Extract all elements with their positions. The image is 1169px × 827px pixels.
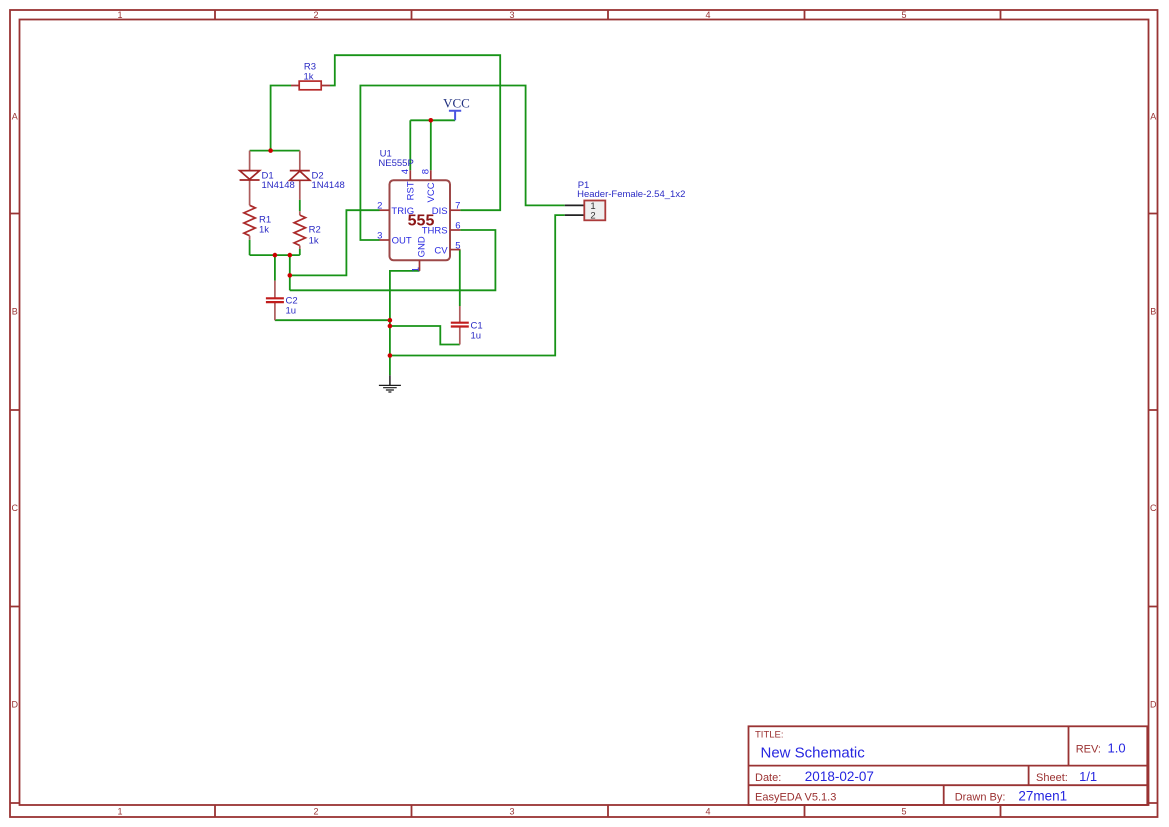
junction R3/D rail xyxy=(268,148,273,153)
frame column ticks bottom xyxy=(215,805,1001,817)
frame row ticks left xyxy=(10,214,20,804)
svg-text:5: 5 xyxy=(455,241,460,252)
diode D2 xyxy=(290,151,345,200)
wire THRS pin6 xyxy=(290,230,496,290)
diode D1 xyxy=(240,151,295,206)
frame column ticks top xyxy=(215,10,1001,20)
wire R3 right to DIS pin7 xyxy=(330,55,500,210)
wire C2 bottom to gnd stem xyxy=(275,319,390,321)
svg-text:4: 4 xyxy=(400,169,411,174)
title block DrawnBy divider xyxy=(943,785,945,805)
U1 pin 7 DIS xyxy=(432,200,461,216)
svg-text:D: D xyxy=(1150,700,1157,710)
title block row divider 1 xyxy=(749,765,1148,767)
svg-text:1u: 1u xyxy=(471,331,482,342)
junction gnd C1 xyxy=(388,324,393,329)
frame row letters left xyxy=(11,112,18,710)
svg-text:D: D xyxy=(11,700,18,710)
svg-text:1.0: 1.0 xyxy=(1108,740,1126,755)
svg-text:2: 2 xyxy=(313,807,318,817)
title block row divider 2 xyxy=(749,784,1148,786)
svg-text:5: 5 xyxy=(901,10,906,20)
svg-text:Date:: Date: xyxy=(755,772,781,784)
frame column numbers top xyxy=(117,10,906,20)
svg-text:1N4148: 1N4148 xyxy=(262,180,295,191)
junction VCC rail xyxy=(429,118,434,123)
svg-text:1/1: 1/1 xyxy=(1079,769,1097,784)
frame row ticks right xyxy=(1149,214,1159,804)
svg-text:C: C xyxy=(11,503,18,513)
svg-text:1N4148: 1N4148 xyxy=(312,180,345,191)
junction rail TRIG xyxy=(288,253,293,258)
svg-text:8: 8 xyxy=(421,169,432,174)
svg-text:A: A xyxy=(12,112,18,122)
svg-text:1k: 1k xyxy=(309,236,319,247)
wire D2 to R2 xyxy=(299,200,301,212)
svg-text:2: 2 xyxy=(313,10,318,20)
op-amp U1 555 timer body xyxy=(378,149,450,261)
frame column numbers bottom xyxy=(117,807,906,817)
svg-text:RST: RST xyxy=(406,181,417,200)
wire C2 top xyxy=(274,255,276,281)
wire gnd rail to P1 pin2 xyxy=(390,215,565,355)
svg-text:C: C xyxy=(1150,503,1157,513)
wire VCC rail xyxy=(410,119,455,121)
resistor R3 xyxy=(291,62,330,90)
svg-text:1k: 1k xyxy=(259,225,269,236)
svg-text:EasyEDA V5.1.3: EasyEDA V5.1.3 xyxy=(755,792,836,804)
U1 pin 8 VCC xyxy=(421,169,437,202)
wire R1 bottom xyxy=(249,240,251,255)
svg-text:NE555P: NE555P xyxy=(378,158,413,169)
wire VCC to pin8 xyxy=(430,120,432,170)
capacitor C2 xyxy=(266,281,298,321)
resistor R1 xyxy=(244,205,271,240)
svg-text:5: 5 xyxy=(901,807,906,817)
svg-text:A: A xyxy=(1150,112,1156,122)
svg-text:3: 3 xyxy=(377,231,382,242)
svg-text:2: 2 xyxy=(377,200,382,211)
svg-text:THRS: THRS xyxy=(422,226,448,237)
svg-text:4: 4 xyxy=(705,10,710,20)
junction gnd P1 xyxy=(388,353,393,358)
svg-text:Drawn By:: Drawn By: xyxy=(955,792,1006,804)
svg-text:REV:: REV: xyxy=(1076,743,1101,755)
svg-text:R2: R2 xyxy=(309,225,321,236)
wire C1 bottom to gnd stem xyxy=(390,326,460,345)
U1 pin 1 GND xyxy=(410,236,427,272)
svg-text:4: 4 xyxy=(705,807,710,817)
svg-text:VCC: VCC xyxy=(443,95,470,110)
capacitor C1 xyxy=(451,306,483,345)
junction dots xyxy=(268,118,433,358)
U1 pin 6 THRS xyxy=(422,221,461,237)
wire rail to TRIG junction xyxy=(289,255,291,290)
svg-text:OUT: OUT xyxy=(392,236,412,247)
svg-text:CV: CV xyxy=(434,246,448,257)
wire bottom rail R1 R2 xyxy=(250,254,300,256)
svg-text:3: 3 xyxy=(509,807,514,817)
svg-text:1u: 1u xyxy=(286,306,297,317)
wire GND pin1 down xyxy=(390,271,420,375)
wire CV pin5 to C1 xyxy=(459,250,461,306)
svg-text:B: B xyxy=(1150,307,1156,317)
svg-text:GND: GND xyxy=(416,236,427,257)
svg-text:Sheet:: Sheet: xyxy=(1036,772,1068,784)
svg-text:2018-02-07: 2018-02-07 xyxy=(805,769,874,784)
U1 pin 4 RST xyxy=(400,169,417,200)
wire TRIG pin2 xyxy=(290,210,380,275)
junction rail C2 xyxy=(273,253,278,258)
wire VCC to pin4 xyxy=(409,120,411,170)
svg-text:TITLE:: TITLE: xyxy=(755,730,784,741)
svg-text:New Schematic: New Schematic xyxy=(761,744,866,761)
U1 pin 2 TRIG xyxy=(377,200,414,216)
svg-text:1: 1 xyxy=(410,267,421,272)
svg-text:1: 1 xyxy=(117,807,122,817)
ground xyxy=(379,375,401,392)
svg-text:B: B xyxy=(12,307,18,317)
svg-text:3: 3 xyxy=(509,10,514,20)
svg-text:TRIG: TRIG xyxy=(391,206,414,217)
wire top rail D1 D2 xyxy=(250,150,300,152)
svg-text:1: 1 xyxy=(117,10,122,20)
svg-text:1k: 1k xyxy=(303,72,313,83)
svg-text:27men1: 27men1 xyxy=(1018,789,1067,804)
U1 pin 5 CV xyxy=(434,241,460,257)
VCC net flag xyxy=(443,95,470,120)
U1 pin 3 OUT xyxy=(377,231,412,247)
title block REV divider xyxy=(1068,726,1070,765)
svg-text:Header-Female-2.54_1x2: Header-Female-2.54_1x2 xyxy=(577,189,685,200)
title block Sheet divider xyxy=(1028,766,1030,786)
junction gnd C2 xyxy=(388,318,393,323)
connector P1 xyxy=(565,180,686,222)
junction TRIG/THRS xyxy=(288,273,293,278)
wire R3 left to D1/D2 top rail xyxy=(271,86,291,151)
svg-text:7: 7 xyxy=(455,200,460,211)
svg-text:6: 6 xyxy=(455,221,460,232)
svg-text:VCC: VCC xyxy=(426,182,437,202)
frame row letters right xyxy=(1150,112,1157,710)
svg-text:DIS: DIS xyxy=(432,206,448,217)
wire OUT pin3 to P1 pin1 xyxy=(360,86,564,241)
resistor R2 xyxy=(294,211,321,249)
wire R2 bottom xyxy=(299,249,301,255)
title block outline xyxy=(749,726,1148,805)
svg-text:2: 2 xyxy=(590,211,595,222)
